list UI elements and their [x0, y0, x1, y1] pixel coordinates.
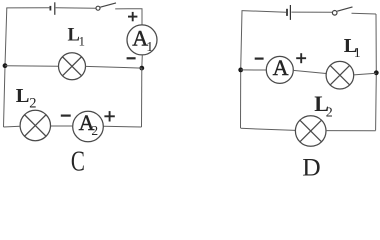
switch S2 blade [337, 7, 352, 11]
lamp L2 (D) [295, 116, 326, 147]
wire: D left vertical [241, 11, 243, 128]
wire: L1 to right junction [354, 73, 377, 75]
node: D left junction [238, 68, 243, 73]
battery B2 long plate [289, 5, 291, 20]
wire: D bottom right segment [326, 130, 376, 132]
switch S1 pivot [96, 6, 100, 10]
wire: C top left segment [6, 7, 49, 9]
wire: D bottom left segment [241, 128, 296, 130]
wire: switch to top-right corner [115, 9, 142, 25]
node: C right junction [139, 66, 144, 71]
minus label (A -) [255, 57, 264, 59]
node: C left junction [3, 63, 8, 68]
minus label (A1 -) [127, 57, 136, 59]
svg-text:L: L [16, 85, 30, 107]
wire: L2 to bottom-left corner [4, 125, 21, 128]
wire: D switch to top-right corner [352, 12, 377, 15]
minus label (A2 -) [61, 114, 71, 116]
battery B1 short plate [49, 6, 51, 11]
wire: ammeter to L1 [293, 70, 326, 73]
wire: A2 to L2 [51, 125, 73, 127]
svg-text:A: A [273, 55, 289, 80]
svg-text:2: 2 [326, 106, 333, 121]
svg-text:2: 2 [29, 96, 36, 112]
svg-text:2: 2 [91, 123, 98, 138]
wire: C right vertical [141, 68, 143, 127]
ammeter A2 [73, 111, 104, 142]
lamp L2 (C) [20, 110, 50, 140]
battery B2 short plate [286, 9, 288, 16]
lamp L1 (C) [59, 53, 86, 80]
battery B1 long plate [54, 2, 56, 15]
wire: A1 to junction [141, 55, 144, 68]
svg-text:1: 1 [79, 33, 86, 48]
plus label (A1 +) [128, 12, 137, 21]
wire: L1 to right junction [86, 66, 142, 68]
wire: D right vertical [375, 14, 378, 131]
wire: battery to switch [56, 7, 96, 9]
wire: D battery to switch [291, 11, 333, 13]
ammeter A [266, 56, 293, 83]
ammeter A1 [127, 25, 157, 55]
plus label (A2 +) [104, 111, 114, 121]
svg-text:1: 1 [354, 45, 361, 60]
wire: D junction to ammeter [241, 69, 267, 71]
node: D right junction [374, 70, 379, 75]
wire: D top left segment [242, 11, 287, 13]
plus label (A +) [296, 53, 306, 63]
wire: junction to L1 [5, 65, 59, 68]
switch S1 blade [100, 3, 116, 7]
switch S2 pivot [332, 11, 337, 16]
wire: C bottom right segment [103, 125, 141, 128]
svg-text:D: D [302, 152, 320, 176]
svg-text:C: C [71, 146, 85, 177]
lamp L1 (D) [326, 61, 354, 89]
svg-text:1: 1 [146, 40, 153, 55]
wire: C left vertical [4, 8, 7, 127]
